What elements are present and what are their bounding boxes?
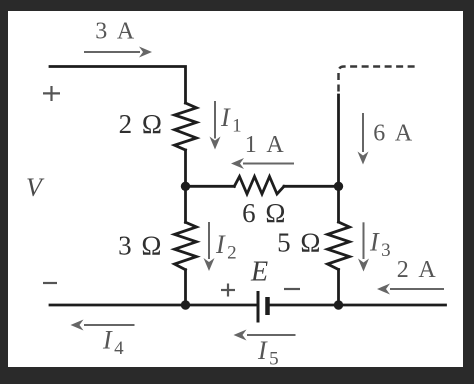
svg-text:E: E <box>250 257 268 288</box>
svg-text:2 Ω: 2 Ω <box>119 109 164 139</box>
svg-text:3 A: 3 A <box>95 19 137 45</box>
svg-text:6 Ω: 6 Ω <box>242 198 287 228</box>
svg-text:6 A: 6 A <box>373 121 415 147</box>
svg-text:1 A: 1 A <box>245 132 287 158</box>
svg-text:5 Ω: 5 Ω <box>277 228 322 258</box>
svg-text:2 A: 2 A <box>397 257 439 283</box>
svg-text:3 Ω: 3 Ω <box>118 231 163 261</box>
